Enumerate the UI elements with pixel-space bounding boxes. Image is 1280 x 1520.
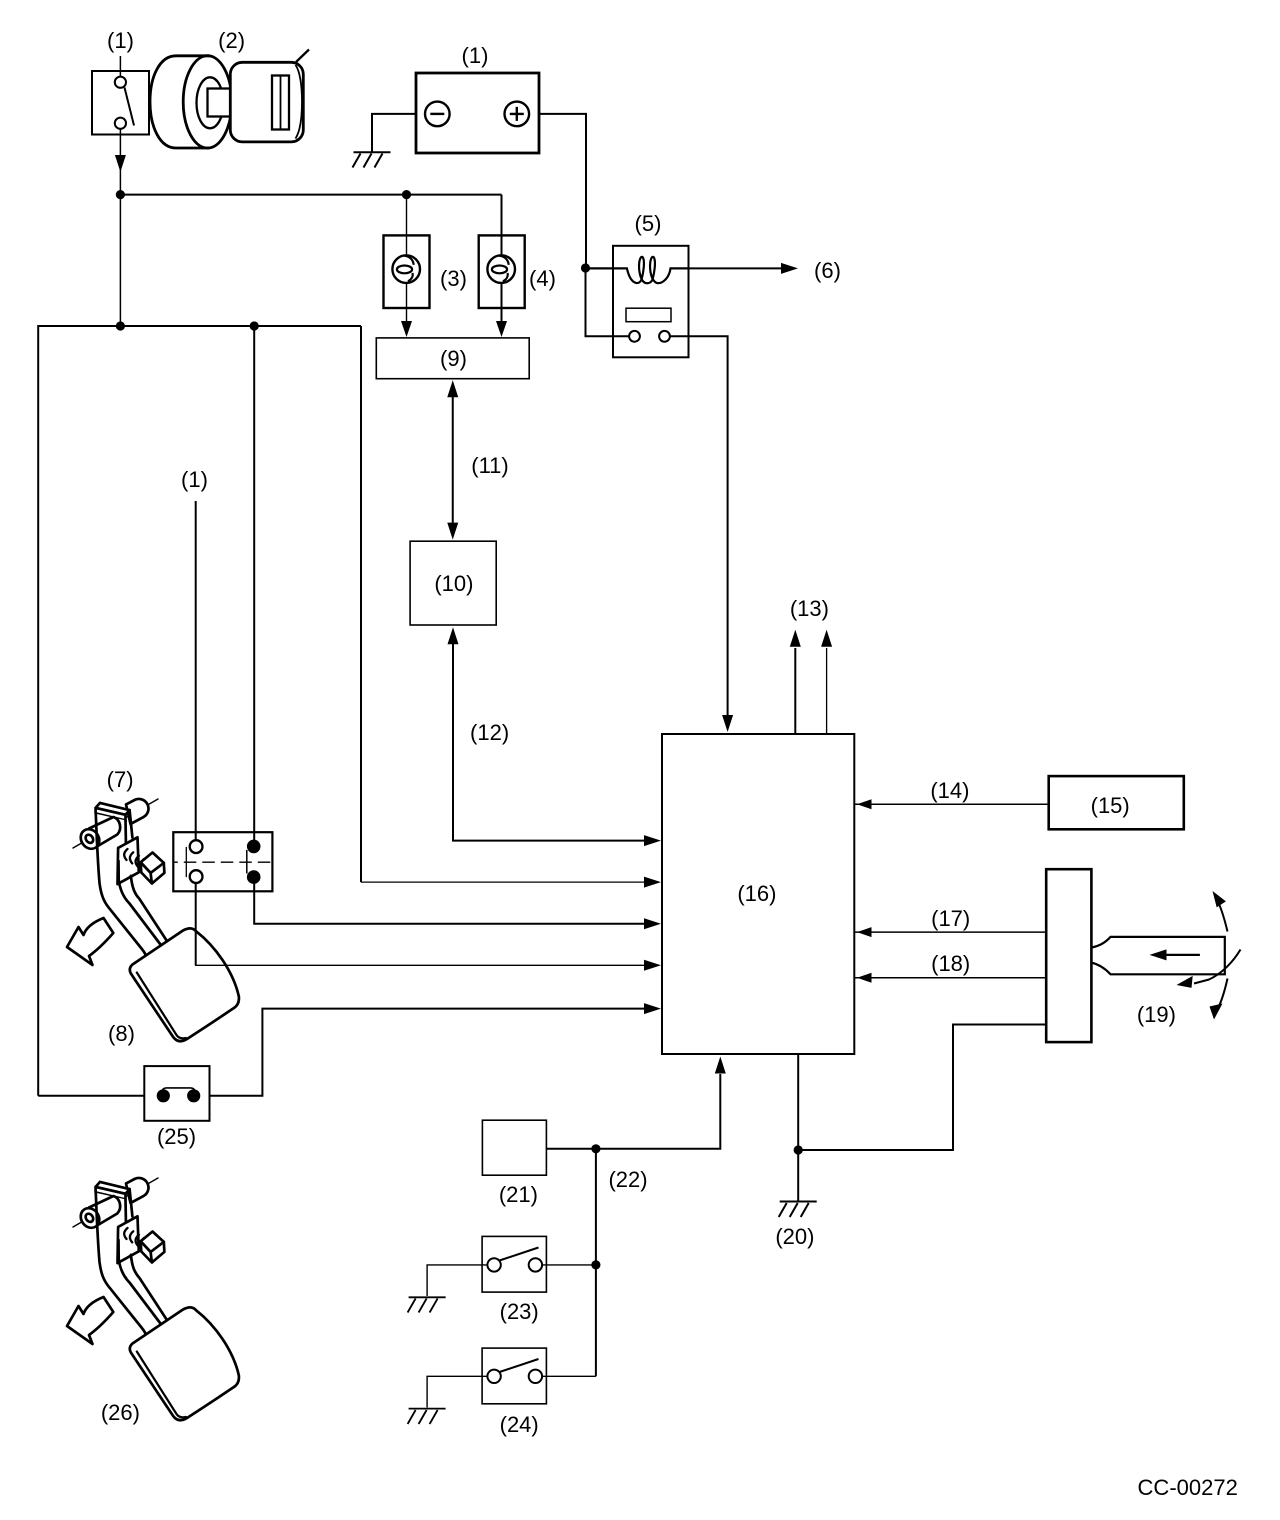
ground (23) (409, 1296, 446, 1298)
box (16) (662, 734, 854, 1054)
svg-text:(13): (13) (790, 596, 829, 621)
wire (22) (546, 1074, 720, 1149)
wire (25) right up to (16) (210, 1009, 645, 1096)
lever arrow (1165, 954, 1200, 956)
wire (24) right (542, 1375, 596, 1377)
lamp (3) wire (406, 195, 408, 323)
wire (23) right (542, 1264, 596, 1266)
wire stop switch right lower to (16) (254, 882, 644, 924)
relay contact circles (629, 331, 640, 342)
svg-text:(5): (5) (635, 211, 662, 236)
wire (1) stub down to stop switch (195, 501, 197, 841)
wire (22) down (595, 1149, 597, 1377)
node (22) (591, 1144, 600, 1153)
arrow down on ignition wire (115, 155, 126, 172)
wire (12) (453, 644, 644, 841)
arrow into (16) y882 (644, 877, 661, 888)
box (23) (482, 1236, 546, 1292)
box (10) (410, 541, 496, 625)
battery plus terminal (505, 102, 530, 127)
svg-text:(7): (7) (107, 767, 134, 792)
ground (24) (409, 1408, 446, 1410)
wire stalk ground (799, 1025, 1046, 1151)
arrow relay into (16) (722, 715, 733, 732)
svg-text:(17): (17) (931, 906, 970, 931)
wire (18) (855, 977, 1046, 979)
wire stop switch left lower to (16) (196, 881, 644, 965)
svg-text:(19): (19) (1137, 1002, 1176, 1027)
arrow (12) into (16) (644, 835, 661, 846)
box (15) (1049, 776, 1184, 829)
svg-text:(12): (12) (470, 720, 509, 745)
arrow (22) into (16) (715, 1057, 726, 1074)
double arrow (11) (452, 395, 454, 524)
arrow (18) into (16) (857, 973, 872, 983)
ground (20) (780, 1201, 817, 1203)
svg-text:(6): (6) (814, 258, 841, 283)
svg-text:(1): (1) (181, 467, 208, 492)
node (23) junction (591, 1260, 600, 1269)
arrow into (16) y923 (644, 918, 661, 929)
svg-text:(25): (25) (157, 1124, 196, 1149)
wire (24) left to ground (427, 1376, 487, 1407)
lamp (4) box (479, 235, 525, 308)
contact top-right filled (247, 840, 261, 854)
wire ignition switch vertical (119, 56, 121, 326)
node bus2-branch (250, 321, 259, 330)
svg-text:(3): (3) (440, 266, 467, 291)
wire (16) to ground (797, 1054, 799, 1201)
ignition key (2) pictorial (150, 50, 309, 149)
svg-text:(1): (1) (462, 43, 489, 68)
arrow (13) b (821, 630, 832, 647)
arrow to (6) (781, 263, 798, 274)
svg-text:(4): (4) (529, 266, 556, 291)
box (21) (482, 1120, 546, 1175)
arrow lamp4 into (9) (496, 321, 507, 337)
arrow into (16) y1008 (644, 1003, 661, 1014)
svg-text:(10): (10) (434, 571, 473, 596)
wire relay coil output (689, 267, 784, 269)
ignition switch blade (125, 88, 135, 126)
switch (23) contacts (487, 1258, 500, 1271)
(25) bridge (162, 1088, 195, 1091)
clutch pedal upper (7)(8) (67, 799, 239, 1041)
lamp (4) bulb (487, 255, 515, 283)
box (9) (376, 338, 529, 379)
contact bottom-right filled (247, 870, 261, 884)
relay contact plate (626, 308, 671, 322)
stop/brake switch box (173, 832, 272, 891)
battery box (416, 73, 539, 153)
brake pedal (26) (67, 1178, 239, 1420)
contact bar right (246, 850, 248, 874)
wire (23) left to ground (427, 1265, 487, 1296)
wire (25) left (38, 1095, 144, 1097)
svg-text:(15): (15) (1091, 793, 1130, 818)
svg-text:(18): (18) (931, 951, 970, 976)
svg-text:(22): (22) (608, 1167, 647, 1192)
node bus2-ign (116, 321, 125, 330)
battery minus terminal (425, 102, 450, 127)
svg-text:CC-00272: CC-00272 (1138, 1475, 1238, 1500)
node battery-relay junction (581, 263, 590, 272)
curved arrow up (1216, 897, 1228, 932)
relay (5) box (613, 246, 689, 357)
svg-text:(16): (16) (737, 881, 776, 906)
arrow (13) a (790, 630, 801, 647)
wire (14) (855, 803, 1049, 805)
svg-text:(23): (23) (500, 1299, 539, 1324)
svg-text:(14): (14) (930, 778, 969, 803)
ignition switch contacts (115, 77, 126, 88)
switch (24) contacts (487, 1370, 500, 1383)
svg-text:(21): (21) (499, 1182, 538, 1207)
wire relay contact right to (16) (670, 336, 728, 715)
svg-text:(8): (8) (108, 1021, 135, 1046)
contact bar left (185, 847, 187, 877)
ignition switch (1) box (92, 71, 149, 135)
wire battery plus down to relay (539, 114, 586, 268)
arrow (14) into (16) (857, 799, 872, 809)
relay coil (586, 257, 689, 283)
contact top-left (190, 840, 203, 853)
lamp (4) wire (501, 195, 503, 323)
wires (13) outputs (794, 648, 796, 734)
svg-text:(26): (26) (101, 1400, 140, 1425)
wire battery minus to ground (372, 114, 416, 152)
arrow lamp3 into (9) (401, 321, 412, 337)
arrow into (16) y965 (644, 960, 661, 971)
curved arrow crossing (1194, 950, 1241, 984)
wire bus accessory (120, 194, 501, 196)
(25) terminals (157, 1089, 170, 1102)
node ignition-bus (116, 190, 125, 199)
wire (17) (855, 931, 1046, 933)
switch (23) blade (500, 1248, 539, 1261)
svg-text:(1): (1) (107, 28, 134, 53)
svg-text:(11): (11) (471, 453, 509, 478)
wire relay contact left (586, 268, 630, 336)
wire bus2 horizontal (38, 326, 361, 1096)
switch (24) blade (500, 1359, 539, 1372)
wire bus2 down to (16) second input (360, 326, 362, 882)
curved arrow down (1216, 979, 1228, 1013)
svg-text:(20): (20) (775, 1224, 814, 1249)
wire branch to stop switch (253, 326, 255, 841)
node bus-lamp3 (402, 190, 411, 199)
lamp (3) box (384, 235, 430, 308)
node ground junction (794, 1145, 803, 1154)
svg-text:(2): (2) (218, 28, 245, 53)
svg-text:(9): (9) (440, 346, 467, 371)
contact bottom-left (190, 870, 203, 883)
stalk switch box (1046, 869, 1091, 1042)
stalk lever (1092, 937, 1225, 974)
svg-text:(24): (24) (500, 1412, 539, 1437)
arrow (12) into (10) (448, 627, 459, 644)
ground battery (354, 151, 391, 153)
box (24) (482, 1348, 546, 1404)
arrow (17) into (16) (857, 927, 872, 937)
box (25) (144, 1066, 209, 1121)
dashed centerline (173, 861, 272, 863)
lamp (3) bulb (392, 255, 420, 283)
